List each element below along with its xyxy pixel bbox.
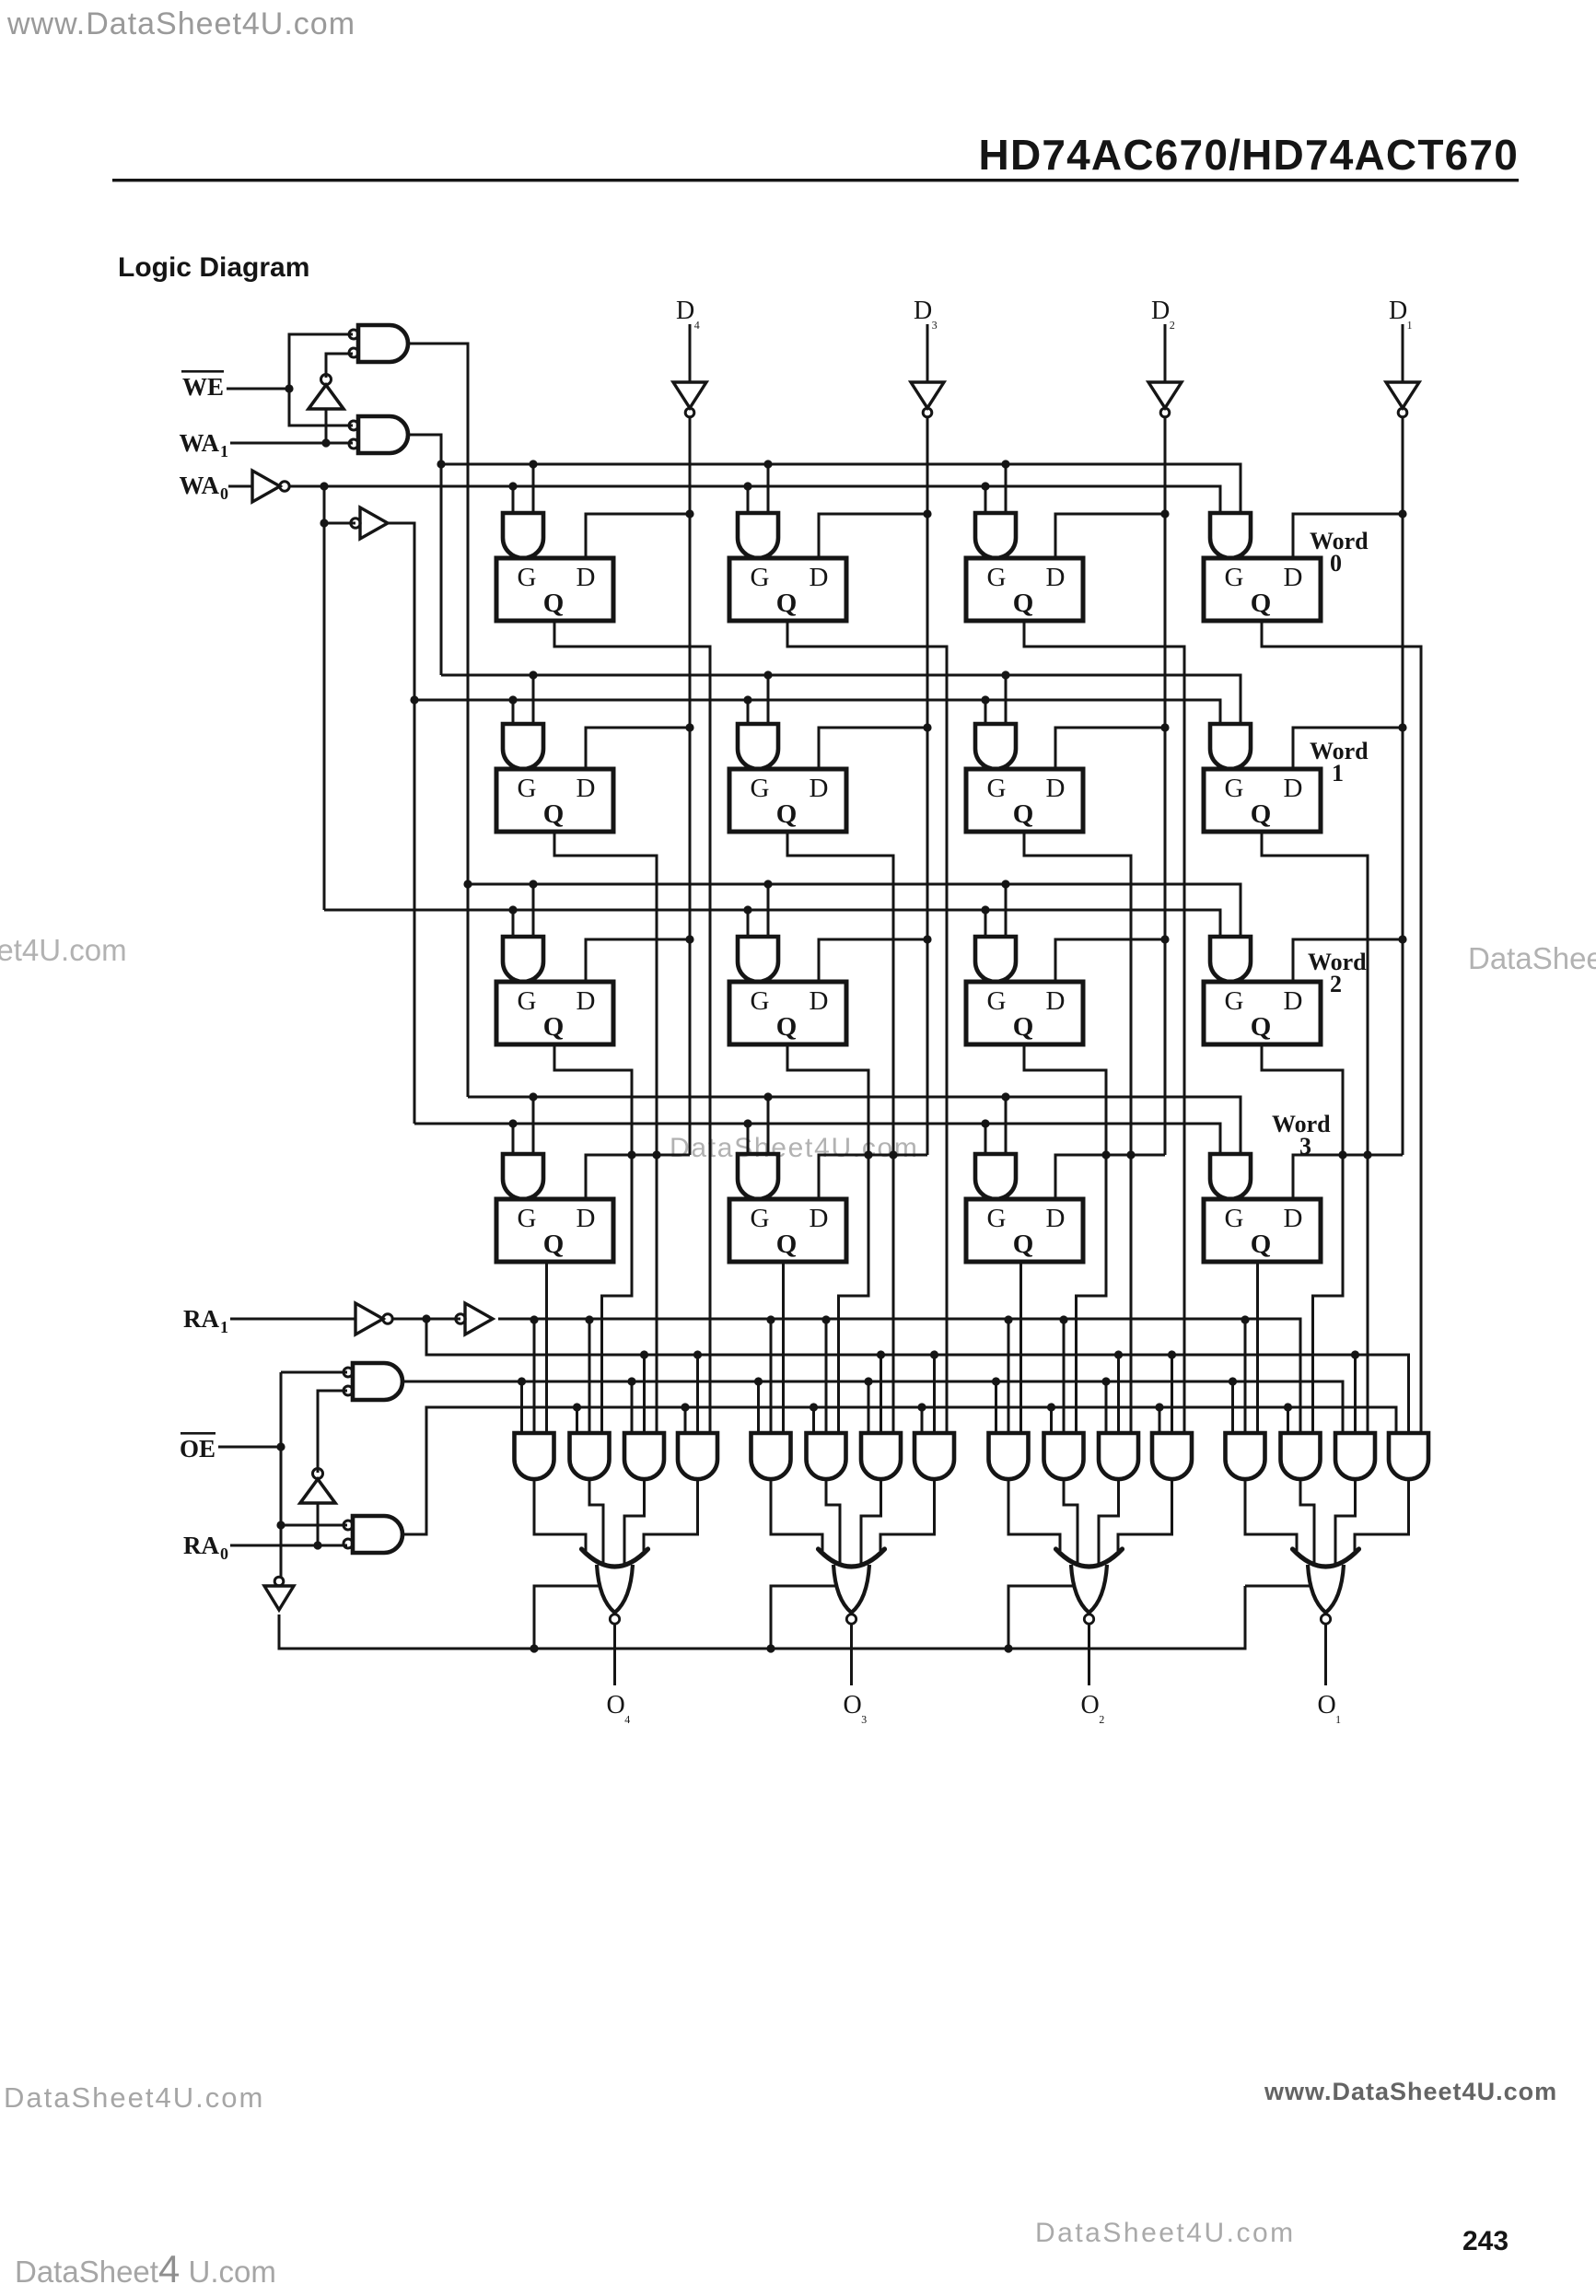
svg-text:WA: WA — [179, 472, 219, 499]
buffer U6-3 (D₂ input inverter) — [1148, 382, 1182, 417]
wire read tap RA1 col1 g1 — [533, 1320, 536, 1433]
wire Q word2 col4 to read column — [1262, 1044, 1343, 1433]
buffer U6-2 (D₃ input inverter) — [911, 382, 944, 417]
svg-text:D: D — [1046, 986, 1066, 1016]
svg-text:www.DataSheet4U.com: www.DataSheet4U.com — [1264, 2078, 1557, 2105]
latch cell word0 bit4 — [496, 558, 613, 621]
junction RA0 at U10 — [313, 1541, 321, 1549]
net D₄ column — [689, 416, 692, 1155]
svg-text:DataSheet4U.com: DataSheet4U.com — [4, 2081, 264, 2114]
junction word2 col2 lower — [743, 905, 751, 914]
wire U2 output to column x479 — [408, 435, 441, 675]
svg-text:G: G — [1225, 986, 1244, 1016]
wire D tap word0 col3 — [1055, 514, 1165, 558]
svg-text:Q: Q — [1013, 1012, 1034, 1042]
junction enable line col3 — [1004, 1644, 1012, 1652]
svg-text:Q: Q — [1251, 1230, 1272, 1259]
label RA0 — [183, 1532, 219, 1559]
junction OE to U11 — [276, 1521, 285, 1529]
wire read g4 col4 to NOR — [1355, 1479, 1409, 1551]
heading Logic Diagram — [118, 252, 309, 283]
svg-text:RA: RA — [183, 1532, 219, 1559]
junction word0 upper at x479 — [437, 460, 445, 468]
junction RA1-bar line col1 g4 — [693, 1350, 702, 1358]
svg-text:D: D — [1284, 774, 1303, 803]
net word0 select lower (from U4) — [289, 486, 1220, 513]
watermark DataShee right edge — [1468, 941, 1596, 975]
junction word2 col3 upper — [1001, 880, 1009, 888]
wire word1 col3 AND left input — [984, 700, 987, 724]
svg-text:G: G — [987, 986, 1007, 1016]
junction D tap word0 col3 — [1160, 509, 1169, 518]
net output enable bottom line — [279, 1586, 1245, 1649]
AND gate write word1 bit4 — [503, 724, 543, 769]
wire D tap word1 col4 — [1293, 728, 1403, 769]
junction RA1-bar line col1 g3 — [640, 1350, 648, 1358]
wire word0 col3 AND right input — [1005, 464, 1008, 513]
page number 243 — [1462, 2226, 1509, 2256]
label OE-bar — [180, 1435, 216, 1463]
junction word0 col2 lower — [743, 482, 751, 490]
net D₃ column — [926, 416, 929, 1155]
junction RA1-bar line col3 g4 — [1168, 1350, 1176, 1358]
wire output O1 — [1324, 1624, 1327, 1685]
junction D tap word2 col1 — [685, 935, 693, 943]
svg-text:D: D — [810, 563, 829, 592]
junction word2 col2 upper — [763, 880, 772, 888]
wire read tap RA1 col3 g1 — [1008, 1320, 1010, 1433]
svg-text:eet4U.com: eet4U.com — [0, 933, 127, 967]
label Word 0 — [1310, 528, 1369, 577]
svg-text:G: G — [1225, 1204, 1244, 1233]
wire word0 col2 AND left input — [747, 486, 750, 513]
junction RA1-bar line col2 g3 — [877, 1350, 885, 1358]
svg-text:D: D — [1284, 986, 1303, 1016]
AND gate read col2 word1 — [861, 1433, 901, 1479]
svg-text:Q: Q — [1251, 1012, 1272, 1042]
wire Q word3 col3 to read gate — [1019, 1262, 1022, 1433]
svg-text:D₄: D₄ — [676, 297, 700, 330]
svg-text:G: G — [751, 774, 770, 803]
net word3 select upper — [468, 1097, 1241, 1154]
wire OE to U9 upper input — [281, 1371, 347, 1374]
junction word1 col1 upper — [529, 670, 537, 679]
net read select E line (U9 out) — [402, 1381, 1343, 1433]
wire D tap word2 col2 — [819, 939, 927, 982]
svg-text:0: 0 — [1330, 550, 1342, 577]
junction WA0-bar tee — [320, 482, 328, 490]
net word1 select lower — [414, 700, 1220, 724]
svg-text:1: 1 — [1332, 760, 1344, 787]
inverter U3 (WA1 invert) — [309, 375, 344, 410]
wire U5 output to column x450 — [388, 523, 414, 1124]
AND gate write word3 bit2 — [975, 1154, 1016, 1199]
wire D₄ into buffer — [689, 324, 692, 382]
wire D₂ into buffer — [1164, 324, 1167, 382]
junction word1 col1 lower — [508, 695, 517, 704]
net read select RA1 line — [498, 1319, 1300, 1433]
wire Q word1 col2 to read column — [787, 832, 893, 1433]
svg-text:O₃: O₃ — [844, 1691, 868, 1724]
buffer U6-4 (D₁ input inverter) — [1386, 382, 1419, 417]
wire read tap RA1-bar col2 g4 — [933, 1355, 936, 1433]
junction F line col2 g2 — [810, 1403, 818, 1411]
AND gate read col2 word2 — [807, 1433, 846, 1479]
wire RA0 input — [230, 1544, 347, 1547]
latch cell word3 bit4 — [496, 1199, 613, 1262]
wire U5 input stub — [324, 522, 355, 525]
wire D tap word0 col4 — [1293, 514, 1403, 558]
junction enable line col2 — [766, 1644, 775, 1652]
latch cell word1 bit3 — [729, 769, 846, 832]
wire D tap word1 col2 — [819, 728, 927, 769]
wire D₁ into buffer — [1402, 324, 1404, 382]
svg-text:WE: WE — [182, 373, 224, 401]
wire word2 col2 AND left input — [747, 910, 750, 937]
wire D tap word3 col1 — [586, 1155, 690, 1199]
watermark DataSheet4 U.com bottom-left2 — [15, 2247, 276, 2290]
junction RA1 line col3 g2 — [1059, 1315, 1067, 1323]
junction word2 col1 lower — [508, 905, 517, 914]
svg-text:G: G — [518, 986, 537, 1016]
wire read g4 col1 to NOR — [644, 1479, 698, 1551]
junction word3 col2 upper — [763, 1092, 772, 1101]
wire read tap F col4 g2 — [1287, 1407, 1289, 1433]
latch cell word2 bit1 — [1204, 982, 1321, 1044]
wire word1 col3 AND right input — [1005, 675, 1008, 724]
wire read g3 col2 to NOR — [861, 1479, 881, 1567]
wire Q word0 col2 to read column — [787, 621, 947, 1433]
wire word2 col1 AND right input — [532, 884, 535, 937]
wire D tap word1 col3 — [1055, 728, 1165, 769]
svg-text:D₃: D₃ — [914, 297, 938, 330]
svg-text:Q: Q — [1013, 799, 1034, 829]
junction word1 lower at x450 — [410, 695, 418, 704]
svg-text:HD74AC670/HD74ACT670: HD74AC670/HD74ACT670 — [979, 131, 1519, 179]
junction word3 col2 lower — [743, 1119, 751, 1127]
wire word1 col2 AND right input — [767, 675, 770, 724]
svg-text:G: G — [751, 1204, 770, 1233]
junction word0 col1 lower — [508, 482, 517, 490]
wire Q word0 col1 to read column — [554, 621, 710, 1433]
wire read tap RA1-bar col4 g3 — [1354, 1355, 1357, 1433]
nand U1 (write decode upper) — [349, 325, 408, 362]
wire D tap word3 col4 — [1293, 1155, 1403, 1199]
svg-text:G: G — [751, 563, 770, 592]
junction WA1 at U3 — [321, 438, 330, 447]
junction D tap word1 col3 — [1160, 723, 1169, 731]
wire WE to NAND U1 upper input — [289, 334, 353, 389]
svg-text:243: 243 — [1462, 2226, 1509, 2256]
label D₂ data input — [1151, 297, 1175, 330]
junction word3 col1 lower — [508, 1119, 517, 1127]
wire WE input — [227, 388, 289, 390]
svg-text:G: G — [751, 986, 770, 1016]
wire Q word2 col2 to read column — [787, 1044, 868, 1433]
wire word0 col2 AND right input — [767, 464, 770, 513]
wire word3 col1 AND left input — [512, 1124, 515, 1154]
svg-text:O₂: O₂ — [1081, 1691, 1105, 1724]
wire Q word3 col2 to read gate — [782, 1262, 785, 1433]
junction E line col2 g1 — [754, 1377, 763, 1385]
label RA1 — [183, 1305, 219, 1333]
buffer U8 (RA1 re-buffer) — [456, 1303, 493, 1334]
net read select F line (U11 out) — [402, 1407, 1396, 1534]
junction word1 col2 lower — [743, 695, 751, 704]
AND gate write word1 bit2 — [975, 724, 1016, 769]
svg-text:D: D — [810, 774, 829, 803]
wire read tap F col1 g4 — [684, 1407, 687, 1433]
svg-text:G: G — [518, 563, 537, 592]
wire D tap word1 col1 — [586, 728, 690, 769]
wire RA1 input — [230, 1318, 355, 1321]
svg-text:O₄: O₄ — [607, 1691, 631, 1724]
svg-text:Q: Q — [776, 589, 798, 618]
AND gate read col4 word0 — [1389, 1433, 1428, 1479]
junction word2 col3 lower — [981, 905, 989, 914]
label Word 2 — [1308, 949, 1367, 997]
wire read tap F col3 g4 — [1159, 1407, 1161, 1433]
label Word 1 — [1310, 738, 1369, 787]
net word2 select upper — [468, 884, 1241, 937]
junction D tap word3 col4 crossings — [1338, 1150, 1371, 1159]
junction F line col1 g4 — [681, 1403, 689, 1411]
wire read g3 col1 to NOR — [624, 1479, 645, 1567]
AND gate read col4 word3 — [1226, 1433, 1265, 1479]
label WE-bar — [182, 373, 224, 401]
junction E line col3 g3 — [1101, 1377, 1110, 1385]
nand U11 (read decode lower) — [344, 1516, 402, 1553]
junction F line col3 g4 — [1155, 1403, 1163, 1411]
junction D tap word0 col2 — [923, 509, 931, 518]
junction D tap word2 col2 — [923, 935, 931, 943]
junction E line col1 g3 — [627, 1377, 635, 1385]
wire U3 input from WA1 — [325, 409, 328, 443]
wire word0 col1 AND left input — [512, 486, 515, 513]
junction word0 col3 upper — [1001, 460, 1009, 468]
AND gate write word3 bit3 — [738, 1154, 778, 1199]
svg-text:D: D — [1284, 563, 1303, 592]
wire read tap RA1 col1 g2 — [588, 1320, 591, 1433]
label WA0 — [179, 472, 219, 499]
junction RA1-bar line col4 g3 — [1351, 1350, 1359, 1358]
junction RA1-bar line col2 g4 — [930, 1350, 938, 1358]
junction RA1-bar line col3 g3 — [1114, 1350, 1123, 1358]
wire word3 col3 AND left input — [984, 1124, 987, 1154]
wire read tap F col1 g2 — [576, 1407, 578, 1433]
svg-text:Q: Q — [543, 799, 565, 829]
junction word1 col3 upper — [1001, 670, 1009, 679]
net word0 select upper (from U2) — [441, 464, 1241, 513]
wire Q word1 col3 to read column — [1024, 832, 1131, 1433]
svg-text:D: D — [1046, 774, 1066, 803]
wire U10 out to U9 lower input — [318, 1391, 347, 1473]
wire OE input — [218, 1446, 281, 1449]
wire read tap E col2 g3 — [868, 1381, 870, 1433]
net read select RA1-bar line — [426, 1319, 1409, 1433]
watermark et4U.com left edge — [0, 933, 127, 967]
AND gate write word1 bit3 — [738, 724, 778, 769]
latch cell word3 bit3 — [729, 1199, 846, 1262]
wire Q word3 col4 to read gate — [1256, 1262, 1259, 1433]
wire U1 output to column x508 — [408, 344, 468, 1097]
label Word 3 — [1272, 1111, 1331, 1160]
svg-text:D: D — [577, 986, 596, 1016]
wire U3 out to U1 lower input — [326, 354, 353, 378]
watermark www.DataSheet4U.com top-left — [6, 6, 355, 41]
wire read g4 col3 to NOR — [1118, 1479, 1172, 1551]
wire D tap word2 col1 — [586, 939, 690, 982]
wire read g2 col3 to NOR — [1064, 1479, 1078, 1567]
AND gate read col2 word0 — [914, 1433, 954, 1479]
junction WE tee — [285, 384, 293, 392]
nand U9 (read decode upper) — [344, 1363, 402, 1400]
junction D tap word1 col1 — [685, 723, 693, 731]
wire read tap F col2 g4 — [921, 1407, 924, 1433]
svg-text:Q: Q — [1251, 589, 1272, 618]
wire read tap RA1 col4 g1 — [1244, 1320, 1247, 1433]
title HD74AC670/HD74ACT670 — [979, 131, 1519, 179]
AND gate read col3 word1 — [1099, 1433, 1138, 1479]
junction RA1 line col1 g2 — [585, 1315, 593, 1323]
junction word0 col2 upper — [763, 460, 772, 468]
AND gate read col3 word3 — [989, 1433, 1029, 1479]
label O3 — [844, 1691, 868, 1724]
junction F line col1 g2 — [573, 1403, 581, 1411]
label O4 — [607, 1691, 631, 1724]
wire read g1 col2 to NOR — [771, 1479, 822, 1551]
svg-text:DataSheet4 U.com: DataSheet4 U.com — [15, 2247, 276, 2290]
junction D tap word0 col1 — [685, 509, 693, 518]
svg-text:G: G — [987, 563, 1007, 592]
svg-text:Q: Q — [776, 1012, 798, 1042]
wire WE to NAND U2 upper input — [289, 389, 353, 425]
latch cell word0 bit3 — [729, 558, 846, 621]
junction E line col4 g1 — [1229, 1377, 1237, 1385]
wire read g1 col4 to NOR — [1245, 1479, 1297, 1551]
AND gate read col4 word2 — [1280, 1433, 1320, 1479]
watermark DataSheet4U.com centre — [670, 1133, 919, 1163]
label WA1 subscript — [220, 442, 228, 460]
AND gate write word3 bit1 — [1210, 1154, 1251, 1199]
AND gate write word3 bit4 — [503, 1154, 543, 1199]
net word2 select lower — [324, 910, 1220, 937]
AND gate read col2 word3 — [751, 1433, 791, 1479]
junction RA1 line col2 g2 — [821, 1315, 830, 1323]
net D₂ column — [1164, 416, 1167, 1155]
NOR gate output O1 — [1293, 1549, 1359, 1624]
junction F line col4 g2 — [1284, 1403, 1292, 1411]
wire WA1 input — [230, 442, 353, 445]
watermark DataSheet4U.com bottom-left — [4, 2081, 264, 2114]
wire RA1-bar to U8 — [392, 1318, 460, 1321]
svg-text:DataSheet4U.com: DataSheet4U.com — [670, 1133, 919, 1163]
wire read tap RA1-bar col1 g4 — [696, 1355, 699, 1433]
label D₄ data input — [676, 297, 700, 330]
wire word3 col3 AND right input — [1005, 1097, 1008, 1154]
junction RA1 line col3 g1 — [1004, 1315, 1012, 1323]
wire output O3 — [850, 1624, 853, 1685]
svg-text:DataSheet: DataSheet — [1468, 941, 1596, 975]
wire read tap RA1 col2 g2 — [825, 1320, 828, 1433]
inverter U10 (RA0 invert) — [300, 1469, 335, 1504]
wire read tap RA1 col3 g2 — [1063, 1320, 1066, 1433]
junction RA1 line col1 g1 — [530, 1315, 538, 1323]
svg-text:0: 0 — [220, 1544, 228, 1563]
wire read tap E col1 g3 — [631, 1381, 634, 1433]
AND gate read col3 word0 — [1152, 1433, 1192, 1479]
wire read tap E col1 g1 — [520, 1381, 523, 1433]
wire word0 col3 AND left input — [984, 486, 987, 513]
wire Q word0 col4 to read column — [1262, 621, 1421, 1433]
latch cell word3 bit2 — [966, 1199, 1083, 1262]
wire read g4 col2 to NOR — [880, 1479, 935, 1551]
svg-text:Q: Q — [1251, 799, 1272, 829]
wire word0 col1 AND right input — [532, 464, 535, 513]
wire D tap word0 col1 — [586, 514, 690, 558]
buffer U5 (WA0 re-buffer) — [351, 507, 388, 539]
svg-text:G: G — [518, 1204, 537, 1233]
latch cell word1 bit2 — [966, 769, 1083, 832]
wire Q word0 col3 to read column — [1024, 621, 1184, 1433]
junction F line col2 g4 — [917, 1403, 926, 1411]
junction word2 upper at x508 — [463, 880, 472, 888]
wire read g1 col3 to NOR — [1008, 1479, 1060, 1551]
label D₃ data input — [914, 297, 938, 330]
svg-text:0: 0 — [220, 484, 228, 503]
wire word2 col3 AND left input — [984, 910, 987, 937]
wire word2 col1 AND left input — [512, 910, 515, 937]
nand U2 (write decode lower) — [349, 416, 408, 453]
AND gate read col4 word1 — [1335, 1433, 1375, 1479]
wire read g2 col1 to NOR — [589, 1479, 603, 1567]
label RA1 subscript — [220, 1318, 228, 1336]
wire output O2 — [1088, 1624, 1090, 1685]
wire read g3 col3 to NOR — [1099, 1479, 1119, 1567]
net word3 select lower — [414, 1124, 1220, 1154]
svg-text:D: D — [1046, 563, 1066, 592]
latch cell word1 bit4 — [496, 769, 613, 832]
wire enable riser col3 — [1008, 1586, 1074, 1649]
wire output O4 — [613, 1624, 616, 1685]
svg-text:D: D — [810, 986, 829, 1016]
AND gate read col1 word3 — [515, 1433, 554, 1479]
watermark DataSheet4U.com bottom-centre — [1035, 2218, 1296, 2248]
wire word1 col2 AND left input — [747, 700, 750, 724]
AND gate write word0 bit2 — [975, 513, 1016, 558]
junction RA1-bar tee — [422, 1314, 430, 1323]
NOR gate output O2 — [1056, 1549, 1123, 1624]
junction D tap word3 col3 crossings — [1101, 1150, 1135, 1159]
overline OE — [181, 1432, 216, 1435]
inverter U7 (RA1 invert) — [355, 1303, 392, 1334]
latch cell word2 bit3 — [729, 982, 846, 1044]
svg-text:D₁: D₁ — [1389, 297, 1413, 330]
AND gate write word1 bit1 — [1210, 724, 1251, 769]
wire read g3 col4 to NOR — [1335, 1479, 1356, 1567]
label WA0 subscript — [220, 484, 228, 503]
svg-text:2: 2 — [1330, 971, 1342, 997]
wire enable into NOR col4 — [1245, 1585, 1311, 1588]
svg-text:OE: OE — [180, 1435, 216, 1463]
junction RA1 line col4 g1 — [1241, 1315, 1249, 1323]
svg-text:Q: Q — [1013, 1230, 1034, 1259]
wire word1 col1 AND right input — [532, 675, 535, 724]
label O2 — [1081, 1691, 1105, 1724]
junction D tap word3 col1 crossings — [627, 1150, 660, 1159]
junction D tap word1 col2 — [923, 723, 931, 731]
junction E line col3 g1 — [992, 1377, 1000, 1385]
